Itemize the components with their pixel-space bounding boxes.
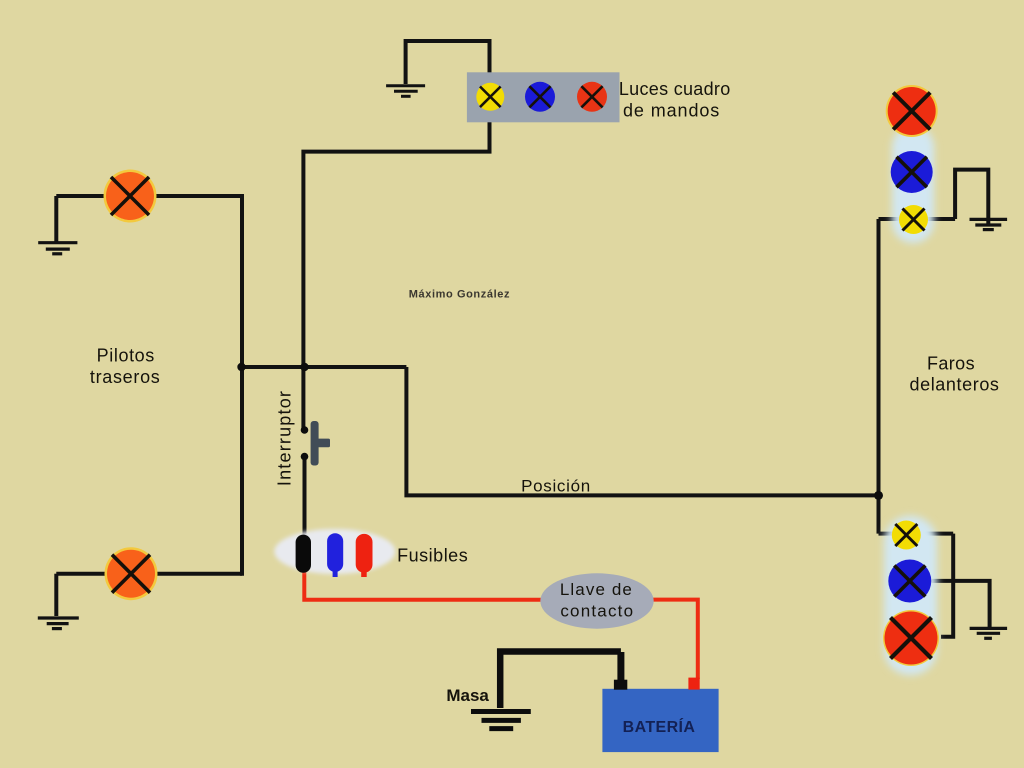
svg-text:Luces cuadro: Luces cuadro	[619, 79, 731, 99]
svg-text:BATERÍA: BATERÍA	[623, 717, 696, 736]
svg-text:Masa: Masa	[446, 686, 489, 705]
svg-text:contacto: contacto	[560, 602, 634, 621]
svg-text:Interruptor: Interruptor	[275, 390, 295, 486]
svg-text:Pilotos: Pilotos	[97, 345, 155, 365]
svg-text:de mandos: de mandos	[623, 101, 720, 121]
svg-text:delanteros: delanteros	[909, 374, 999, 394]
svg-text:Llave de: Llave de	[560, 580, 633, 599]
svg-text:Faros: Faros	[927, 354, 975, 374]
svg-text:Posición: Posición	[521, 476, 591, 495]
svg-text:traseros: traseros	[90, 367, 161, 387]
svg-text:Máximo González: Máximo González	[409, 289, 510, 301]
svg-text:Fusibles: Fusibles	[397, 545, 468, 565]
